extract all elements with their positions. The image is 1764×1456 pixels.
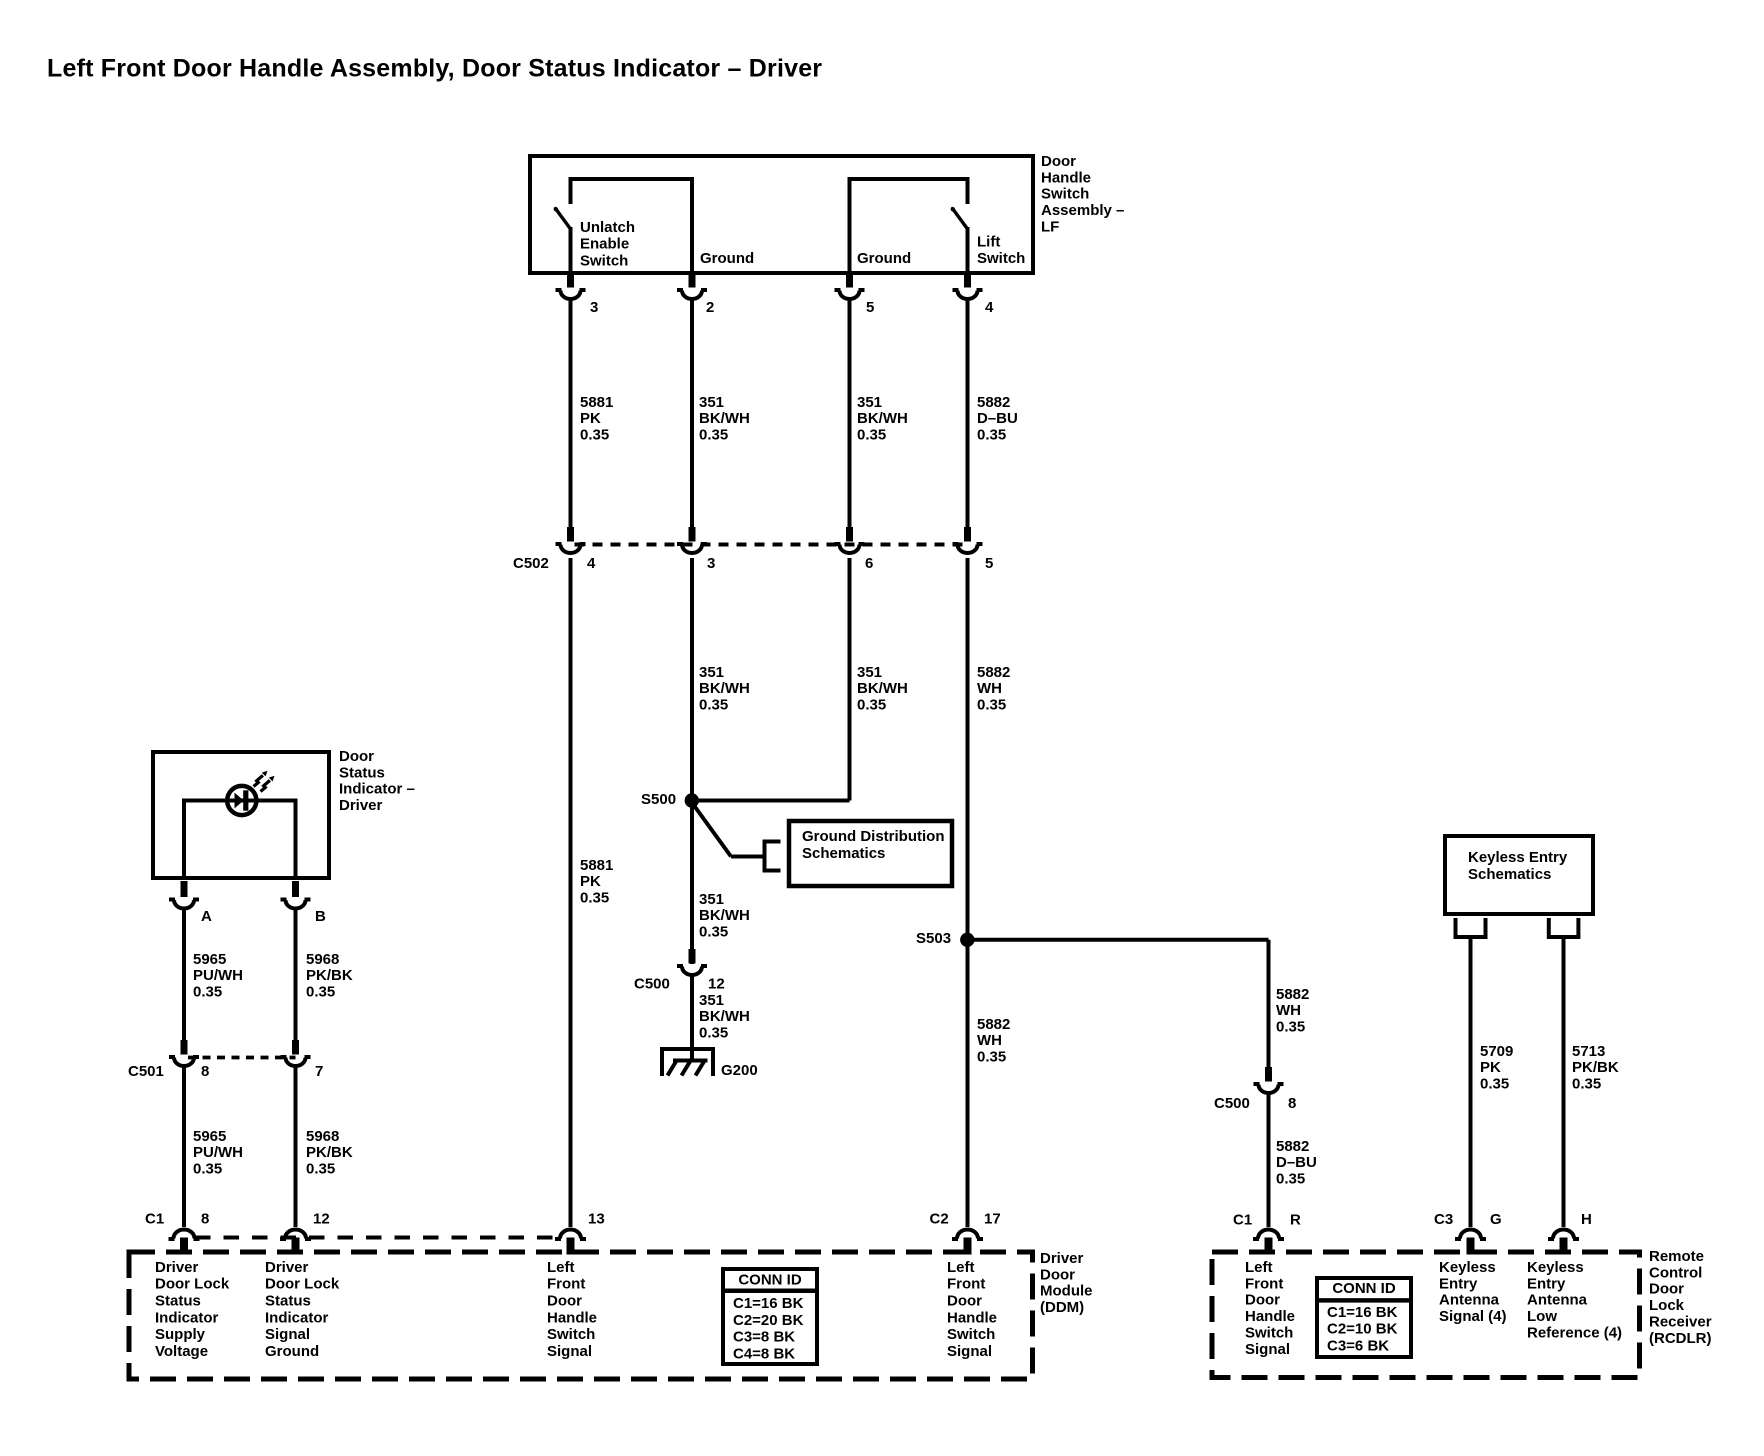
svg-text:5968: 5968	[306, 951, 339, 968]
svg-text:0.35: 0.35	[1276, 1019, 1305, 1036]
svg-text:Switch: Switch	[1245, 1325, 1293, 1342]
svg-text:0.35: 0.35	[306, 984, 335, 1001]
svg-text:S500: S500	[641, 791, 676, 808]
svg-text:Lock: Lock	[1649, 1297, 1685, 1314]
svg-text:0.35: 0.35	[1572, 1076, 1601, 1093]
svg-text:351: 351	[699, 891, 724, 908]
svg-text:0.35: 0.35	[193, 1161, 222, 1178]
svg-text:PK/BK: PK/BK	[1572, 1059, 1619, 1076]
svg-text:G200: G200	[721, 1062, 758, 1079]
svg-text:5881: 5881	[580, 857, 613, 874]
svg-text:C4=8 BK: C4=8 BK	[733, 1346, 795, 1363]
svg-text:Ground: Ground	[700, 250, 754, 267]
svg-text:Assembly –: Assembly –	[1041, 202, 1124, 219]
svg-text:Indicator: Indicator	[155, 1309, 219, 1326]
svg-text:Schematics: Schematics	[1468, 866, 1551, 883]
svg-text:Left Front Door Handle Assembl: Left Front Door Handle Assembly, Door St…	[47, 55, 822, 83]
svg-text:351: 351	[699, 394, 724, 411]
svg-text:8: 8	[201, 1210, 209, 1227]
svg-text:PU/WH: PU/WH	[193, 1144, 243, 1161]
svg-text:0.35: 0.35	[857, 697, 886, 714]
svg-text:BK/WH: BK/WH	[857, 680, 908, 697]
svg-text:Driver: Driver	[339, 797, 383, 814]
svg-text:Door Lock: Door Lock	[155, 1276, 230, 1293]
svg-text:5: 5	[985, 555, 993, 572]
svg-text:351: 351	[857, 664, 882, 681]
svg-text:0.35: 0.35	[699, 697, 728, 714]
svg-text:Enable: Enable	[580, 236, 629, 253]
svg-text:Supply: Supply	[155, 1326, 206, 1343]
svg-text:PK/BK: PK/BK	[306, 967, 353, 984]
svg-text:B: B	[315, 908, 326, 925]
svg-text:WH: WH	[1276, 1002, 1301, 1019]
svg-text:351: 351	[857, 394, 882, 411]
svg-text:Handle: Handle	[1041, 169, 1091, 186]
svg-text:5882: 5882	[977, 394, 1010, 411]
svg-text:Door: Door	[1649, 1281, 1684, 1298]
svg-text:8: 8	[1288, 1095, 1296, 1112]
svg-text:Antenna: Antenna	[1439, 1292, 1500, 1309]
svg-text:WH: WH	[977, 680, 1002, 697]
svg-text:Left: Left	[547, 1259, 575, 1276]
svg-text:Indicator: Indicator	[265, 1309, 329, 1326]
svg-text:C2=10 BK: C2=10 BK	[1327, 1321, 1398, 1338]
svg-text:0.35: 0.35	[580, 890, 609, 907]
svg-text:3: 3	[590, 299, 598, 316]
svg-text:Switch: Switch	[1041, 186, 1089, 203]
svg-text:0.35: 0.35	[699, 427, 728, 444]
svg-text:H: H	[1581, 1211, 1592, 1228]
svg-text:WH: WH	[977, 1032, 1002, 1049]
svg-text:Switch: Switch	[977, 250, 1025, 267]
svg-text:C3=8 BK: C3=8 BK	[733, 1329, 795, 1346]
svg-text:D–BU: D–BU	[977, 410, 1018, 427]
svg-text:A: A	[201, 908, 212, 925]
svg-text:(RCDLR): (RCDLR)	[1649, 1330, 1711, 1347]
svg-text:0.35: 0.35	[977, 1049, 1006, 1066]
svg-text:Unlatch: Unlatch	[580, 219, 635, 236]
svg-text:5882: 5882	[1276, 1138, 1309, 1155]
svg-text:0.35: 0.35	[306, 1161, 335, 1178]
svg-text:0.35: 0.35	[857, 427, 886, 444]
svg-text:Schematics: Schematics	[802, 845, 885, 862]
svg-text:5882: 5882	[1276, 986, 1309, 1003]
svg-text:5713: 5713	[1572, 1043, 1605, 1060]
svg-text:BK/WH: BK/WH	[699, 1008, 750, 1025]
svg-text:Entry: Entry	[1527, 1275, 1566, 1292]
svg-text:Keyless: Keyless	[1527, 1259, 1584, 1276]
svg-text:CONN ID: CONN ID	[1332, 1280, 1396, 1297]
svg-text:4: 4	[587, 555, 596, 572]
svg-text:13: 13	[588, 1210, 605, 1227]
svg-text:Low: Low	[1527, 1308, 1557, 1325]
svg-text:Reference (4): Reference (4)	[1527, 1325, 1622, 1342]
svg-text:C500: C500	[1214, 1095, 1250, 1112]
svg-text:5965: 5965	[193, 1128, 226, 1145]
svg-text:0.35: 0.35	[977, 427, 1006, 444]
svg-text:Door: Door	[1041, 153, 1076, 170]
svg-text:Signal: Signal	[547, 1343, 592, 1360]
svg-text:Signal: Signal	[947, 1343, 992, 1360]
svg-text:Front: Front	[947, 1276, 985, 1293]
svg-text:3: 3	[707, 555, 715, 572]
svg-text:C1: C1	[145, 1210, 164, 1227]
svg-text:Control: Control	[1649, 1264, 1702, 1281]
svg-text:Status: Status	[155, 1293, 201, 1310]
svg-text:PK: PK	[580, 410, 601, 427]
svg-text:BK/WH: BK/WH	[699, 410, 750, 427]
svg-text:PU/WH: PU/WH	[193, 967, 243, 984]
svg-text:G: G	[1490, 1211, 1502, 1228]
svg-text:Receiver: Receiver	[1649, 1314, 1712, 1331]
svg-text:Entry: Entry	[1439, 1275, 1478, 1292]
svg-text:Switch: Switch	[547, 1326, 595, 1343]
svg-text:5: 5	[866, 299, 874, 316]
svg-text:Status: Status	[265, 1293, 311, 1310]
svg-text:C1=16 BK: C1=16 BK	[733, 1295, 804, 1312]
svg-text:Switch: Switch	[580, 253, 628, 270]
svg-text:0.35: 0.35	[699, 924, 728, 941]
svg-text:C501: C501	[128, 1063, 164, 1080]
svg-text:0.35: 0.35	[193, 984, 222, 1001]
svg-text:6: 6	[865, 555, 873, 572]
svg-text:Voltage: Voltage	[155, 1343, 208, 1360]
svg-text:Left: Left	[947, 1259, 975, 1276]
svg-text:5965: 5965	[193, 951, 226, 968]
svg-text:Keyless: Keyless	[1439, 1259, 1496, 1276]
svg-text:C3: C3	[1434, 1211, 1453, 1228]
svg-text:7: 7	[315, 1063, 323, 1080]
svg-text:LF: LF	[1041, 219, 1059, 236]
svg-text:S503: S503	[916, 930, 951, 947]
svg-text:Handle: Handle	[547, 1309, 597, 1326]
svg-text:Lift: Lift	[977, 233, 1000, 250]
svg-text:BK/WH: BK/WH	[857, 410, 908, 427]
svg-text:351: 351	[699, 664, 724, 681]
svg-text:(DDM): (DDM)	[1040, 1299, 1084, 1316]
svg-text:C3=6 BK: C3=6 BK	[1327, 1338, 1389, 1355]
svg-text:Front: Front	[547, 1276, 585, 1293]
svg-text:8: 8	[201, 1063, 209, 1080]
svg-text:Keyless Entry: Keyless Entry	[1468, 849, 1568, 866]
svg-text:BK/WH: BK/WH	[699, 907, 750, 924]
svg-text:PK: PK	[1480, 1059, 1501, 1076]
svg-text:12: 12	[708, 975, 725, 992]
svg-text:2: 2	[706, 299, 714, 316]
svg-text:0.35: 0.35	[977, 697, 1006, 714]
svg-text:5968: 5968	[306, 1128, 339, 1145]
svg-text:Signal (4): Signal (4)	[1439, 1308, 1507, 1325]
svg-text:C500: C500	[634, 975, 670, 992]
svg-text:0.35: 0.35	[580, 427, 609, 444]
svg-text:C502: C502	[513, 555, 549, 572]
svg-text:12: 12	[313, 1210, 330, 1227]
svg-text:Ground: Ground	[857, 250, 911, 267]
svg-text:D–BU: D–BU	[1276, 1154, 1317, 1171]
svg-text:Ground Distribution: Ground Distribution	[802, 828, 944, 845]
svg-text:CONN ID: CONN ID	[738, 1271, 802, 1288]
svg-text:PK: PK	[580, 873, 601, 890]
svg-text:Driver: Driver	[155, 1259, 199, 1276]
svg-text:5709: 5709	[1480, 1043, 1513, 1060]
svg-text:Driver: Driver	[265, 1259, 309, 1276]
svg-text:17: 17	[984, 1210, 1001, 1227]
svg-text:Door: Door	[947, 1293, 982, 1310]
svg-text:Signal: Signal	[265, 1326, 310, 1343]
svg-text:5881: 5881	[580, 394, 613, 411]
svg-text:Door: Door	[1040, 1266, 1075, 1283]
svg-text:Module: Module	[1040, 1283, 1093, 1300]
svg-text:C1=16 BK: C1=16 BK	[1327, 1304, 1398, 1321]
svg-text:Status: Status	[339, 764, 385, 781]
svg-text:Ground: Ground	[265, 1343, 319, 1360]
svg-text:351: 351	[699, 992, 724, 1009]
svg-text:Handle: Handle	[1245, 1308, 1295, 1325]
svg-text:Switch: Switch	[947, 1326, 995, 1343]
svg-text:Door: Door	[339, 748, 374, 765]
svg-text:5882: 5882	[977, 1016, 1010, 1033]
svg-text:Remote: Remote	[1649, 1248, 1704, 1265]
svg-text:Door: Door	[547, 1293, 582, 1310]
svg-text:Signal: Signal	[1245, 1341, 1290, 1358]
svg-text:Left: Left	[1245, 1259, 1273, 1276]
svg-text:0.35: 0.35	[699, 1025, 728, 1042]
svg-text:Door: Door	[1245, 1292, 1280, 1309]
svg-text:C1: C1	[1233, 1211, 1252, 1228]
svg-text:Front: Front	[1245, 1275, 1283, 1292]
svg-text:Antenna: Antenna	[1527, 1292, 1588, 1309]
svg-text:Indicator –: Indicator –	[339, 781, 415, 798]
svg-text:5882: 5882	[977, 664, 1010, 681]
svg-text:Handle: Handle	[947, 1309, 997, 1326]
svg-text:0.35: 0.35	[1276, 1171, 1305, 1188]
svg-text:PK/BK: PK/BK	[306, 1144, 353, 1161]
svg-text:C2=20 BK: C2=20 BK	[733, 1312, 804, 1329]
svg-text:Driver: Driver	[1040, 1250, 1084, 1267]
svg-text:4: 4	[985, 299, 994, 316]
svg-text:R: R	[1290, 1211, 1301, 1228]
svg-text:C2: C2	[930, 1210, 949, 1227]
svg-text:0.35: 0.35	[1480, 1076, 1509, 1093]
svg-text:Door Lock: Door Lock	[265, 1276, 340, 1293]
svg-text:BK/WH: BK/WH	[699, 680, 750, 697]
